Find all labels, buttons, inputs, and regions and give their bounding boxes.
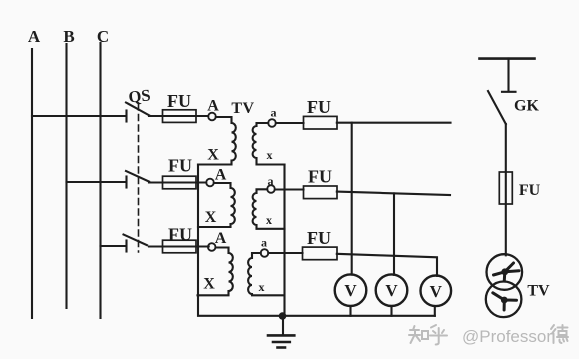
svg-text:FU: FU	[168, 156, 192, 176]
svg-text:X: X	[205, 209, 217, 226]
svg-text:A: A	[215, 167, 227, 184]
svg-text:a: a	[261, 236, 267, 250]
svg-text:FU: FU	[519, 182, 541, 199]
svg-text:FU: FU	[307, 97, 331, 117]
svg-text:FU: FU	[167, 91, 191, 111]
svg-text:X: X	[203, 276, 215, 293]
svg-text:@Professor: @Professor	[462, 327, 552, 346]
svg-text:FU: FU	[168, 225, 192, 245]
svg-text:FU: FU	[308, 167, 332, 187]
svg-text:GK: GK	[514, 98, 539, 115]
svg-text:X: X	[207, 147, 219, 164]
svg-text:A: A	[207, 98, 219, 115]
svg-text:x: x	[266, 213, 272, 227]
svg-text:A: A	[215, 230, 227, 247]
svg-text:x: x	[259, 280, 265, 294]
svg-text:B: B	[63, 27, 74, 46]
svg-text:C: C	[97, 27, 109, 46]
svg-text:V: V	[344, 281, 357, 300]
svg-text:FU: FU	[307, 228, 331, 248]
svg-text:TV: TV	[527, 283, 550, 300]
svg-text:x: x	[267, 148, 273, 162]
svg-text:a: a	[268, 174, 274, 188]
svg-text:V: V	[430, 282, 443, 301]
svg-text:a: a	[271, 106, 277, 120]
svg-text:V: V	[385, 281, 398, 300]
svg-text:A: A	[28, 27, 41, 46]
svg-text:TV: TV	[231, 100, 254, 117]
svg-text:QS: QS	[128, 85, 152, 106]
